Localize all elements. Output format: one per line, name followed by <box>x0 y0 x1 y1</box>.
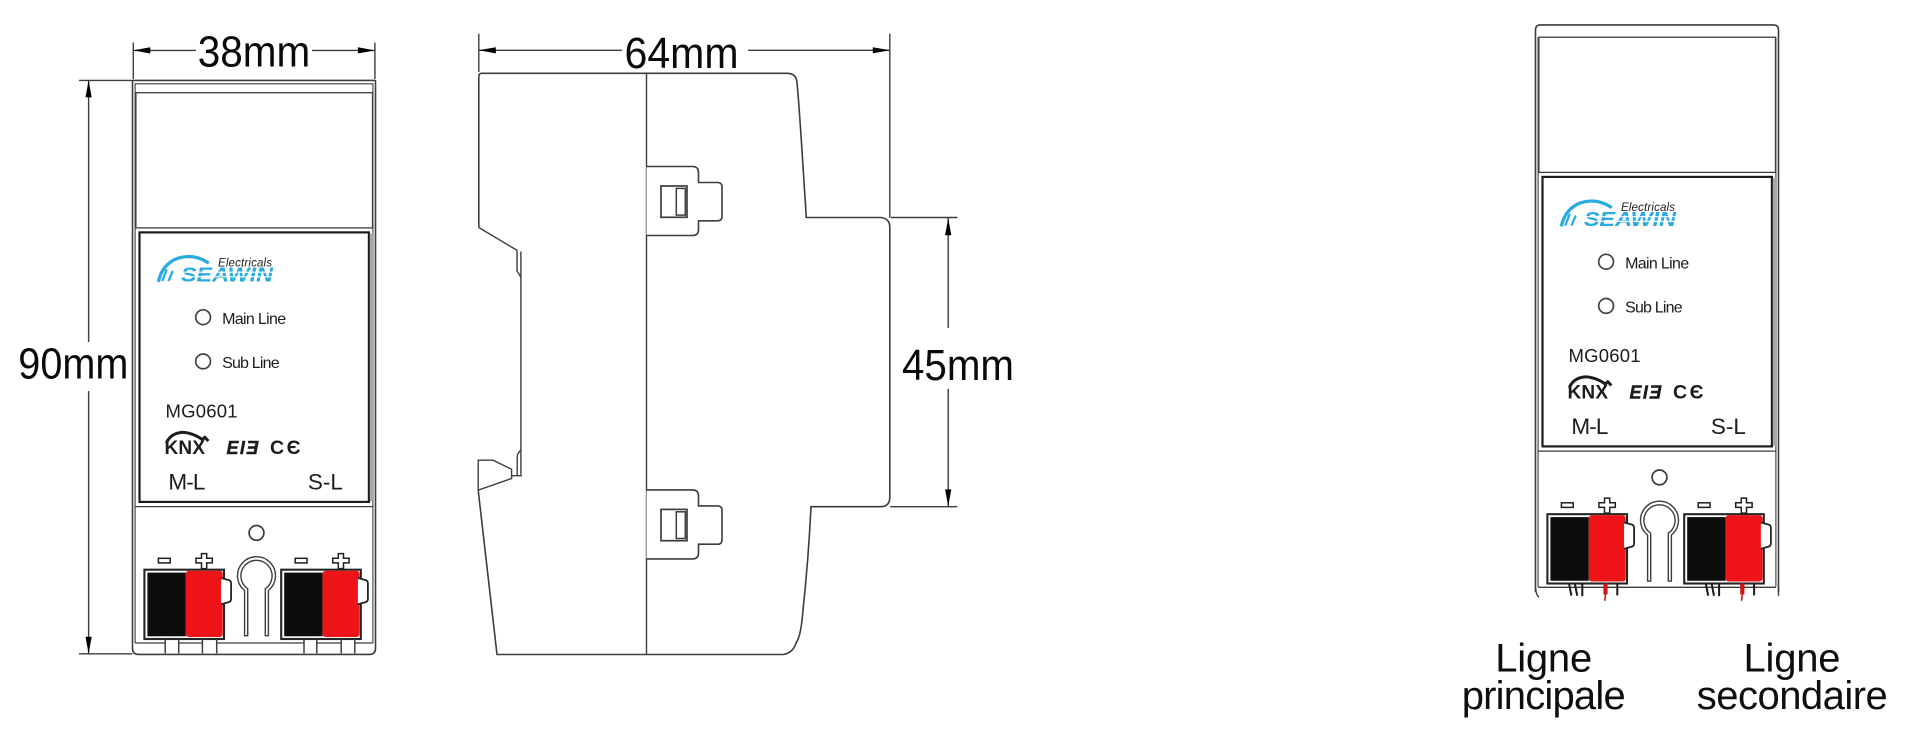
45mm arrowhead top <box>945 218 951 235</box>
terminal first (M-L): plus mark <box>196 554 212 569</box>
90mm extension line top <box>79 79 133 81</box>
svg-text:KNX: KNX <box>165 438 206 459</box>
svg-text:S-L: S-L <box>308 470 343 495</box>
svg-text:secondaire: secondaire <box>1697 674 1888 718</box>
terminal first (M-L): red clamp <box>186 571 223 637</box>
64mm extension line left <box>478 34 480 72</box>
mounting hole circle <box>1652 470 1667 485</box>
casing bottom side stubs <box>1536 587 1540 597</box>
terminal first (M-L): side notch <box>1624 523 1634 549</box>
38mm arrowhead right <box>358 47 375 53</box>
top blank panel <box>136 93 373 228</box>
90mm arrowhead top <box>86 80 92 97</box>
LED Sub Line <box>196 354 211 369</box>
terminal first (M-L): plus mark <box>1599 498 1615 513</box>
terminal first (M-L): minus mark <box>1561 503 1573 508</box>
svg-text:Main Line: Main Line <box>1625 255 1689 272</box>
45mm dimension line <box>947 218 949 506</box>
divider line above terminal section <box>1538 450 1776 452</box>
svg-text:CЄ: CЄ <box>1673 382 1706 404</box>
DIN clip block lower <box>647 490 723 559</box>
svg-text:CЄ: CЄ <box>270 437 303 459</box>
side view: DIN rail hook wedge <box>478 460 511 490</box>
svg-text:MG0601: MG0601 <box>166 400 239 421</box>
svg-text:90mm: 90mm <box>18 341 128 389</box>
terminal first (M-L): black clamp <box>1550 517 1588 581</box>
SEAWIN logo swoosh arc <box>1561 201 1612 226</box>
bus wire pair black <box>1706 583 1719 596</box>
terminal first (M-L): black clamp <box>147 573 185 637</box>
inner casing line <box>135 84 373 643</box>
svg-text:Main Line: Main Line <box>222 311 286 328</box>
LED Main Line <box>1599 254 1614 269</box>
bus wire black 2 <box>1616 583 1618 595</box>
90mm dimension line <box>88 80 90 653</box>
DIN release keyhole outer <box>1641 501 1679 581</box>
38mm dimension line <box>133 49 375 51</box>
front view right: device outer casing <box>1536 25 1779 597</box>
side view: left DIN spring channel lower <box>512 450 522 476</box>
terminal second (S-L): black clamp <box>284 573 322 637</box>
casing bottom line <box>1538 586 1776 588</box>
terminal first (M-L): minus mark <box>158 558 170 563</box>
SEAWIN logo stripe <box>179 272 274 277</box>
terminal block second (S-L): outer frame <box>281 570 361 639</box>
bus wire red <box>1603 583 1607 594</box>
64mm extension line right <box>889 34 891 218</box>
terminal second (S-L): red clamp <box>323 571 360 637</box>
label panel right shadow strip <box>1773 178 1776 446</box>
casing inner bottom line with clamp tab slots <box>135 642 373 644</box>
svg-text:45mm: 45mm <box>902 342 1014 390</box>
DIN clip block upper <box>647 167 723 236</box>
terminal first (M-L): red clamp <box>1589 515 1626 581</box>
SEAWIN logo stripe <box>1582 217 1677 222</box>
SEAWIN logo left slashes <box>1565 214 1576 226</box>
svg-text:64mm: 64mm <box>625 30 739 78</box>
DIN release keyhole outer <box>238 557 276 636</box>
svg-text:EIƎ: EIƎ <box>227 438 260 458</box>
terminal block first (M-L): outer frame <box>1547 514 1627 583</box>
mounting hole circle <box>249 526 264 541</box>
64mm arrowhead left <box>479 47 496 53</box>
terminal first (M-L): side notch <box>221 578 231 604</box>
svg-text:38mm: 38mm <box>198 28 311 76</box>
svg-text:Sub Line: Sub Line <box>1625 300 1683 317</box>
clamp tab slot <box>341 639 355 653</box>
divider line above terminal section <box>135 506 373 508</box>
svg-text:Electricals: Electricals <box>1621 202 1675 214</box>
side view: back face vertical line <box>646 73 648 654</box>
svg-text:S-L: S-L <box>1711 414 1746 439</box>
terminal second (S-L): minus mark <box>295 558 307 563</box>
svg-text:Sub Line: Sub Line <box>222 355 280 372</box>
terminal second (S-L): minus mark <box>1698 503 1710 508</box>
side view: left DIN spring channel upper <box>479 228 521 451</box>
terminal second (S-L): plus mark <box>333 554 349 569</box>
front view left: device outer casing <box>133 80 376 654</box>
svg-text:M-L: M-L <box>168 470 205 495</box>
terminal block second (S-L): outer frame <box>1684 514 1764 583</box>
svg-text:Electricals: Electricals <box>218 258 272 270</box>
LED Sub Line <box>1599 299 1614 314</box>
clamp tab slot <box>202 639 216 653</box>
38mm arrowhead left <box>133 47 150 53</box>
38mm extension line right <box>374 43 376 80</box>
DIN clip latch upper <box>661 186 687 217</box>
38mm extension line left <box>132 43 134 80</box>
SEAWIN logo swoosh arc <box>158 257 209 282</box>
terminal second (S-L): plus mark <box>1736 498 1752 513</box>
64mm arrowhead right <box>873 47 890 53</box>
LED Main Line <box>196 310 211 325</box>
90mm extension line bottom <box>79 653 133 655</box>
clamp tab slot <box>165 639 179 653</box>
45mm extension line top <box>891 217 958 219</box>
svg-text:MG0601: MG0601 <box>1569 345 1642 366</box>
SEAWIN logo left slashes <box>162 269 173 281</box>
bus wire red <box>1740 583 1744 594</box>
terminal second (S-L): red clamp <box>1726 515 1763 581</box>
side view: main outline <box>478 73 890 654</box>
label panel right shadow strip <box>370 233 373 501</box>
svg-text:M-L: M-L <box>1571 414 1608 439</box>
terminal second (S-L): black clamp <box>1687 517 1725 581</box>
label panel border <box>1543 177 1772 447</box>
inner casing line <box>1538 37 1776 587</box>
64mm dimension line <box>479 49 890 51</box>
svg-text:principale: principale <box>1462 674 1626 718</box>
label panel border <box>140 232 369 502</box>
svg-text:KNX: KNX <box>1568 383 1609 404</box>
terminal second (S-L): side notch <box>1761 523 1771 549</box>
top blank panel <box>1539 37 1776 172</box>
bus wire black 2 <box>1753 583 1755 595</box>
terminal second (S-L): side notch <box>358 578 368 604</box>
clamp tab slot <box>304 639 317 653</box>
45mm arrowhead bottom <box>945 489 951 506</box>
bus wire pair black <box>1569 583 1582 596</box>
90mm arrowhead bottom <box>86 637 92 654</box>
terminal block first (M-L): outer frame <box>144 570 224 639</box>
DIN clip latch lower <box>661 509 687 540</box>
45mm extension line bottom <box>890 506 958 508</box>
svg-text:EIƎ: EIƎ <box>1630 382 1663 402</box>
